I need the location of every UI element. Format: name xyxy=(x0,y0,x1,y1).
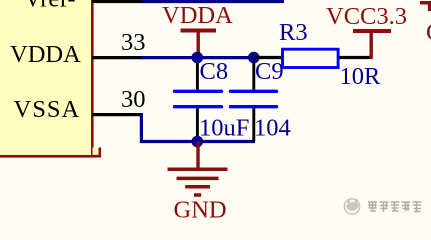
wire VSSA net (step down to ground rail) xyxy=(141,115,256,142)
value 10R xyxy=(340,63,382,90)
wire Vref- net (top) xyxy=(143,0,285,3)
capacitor C9 leads xyxy=(252,58,255,142)
capacitor C8 plates xyxy=(175,91,222,106)
junction dot VDDA/C8 xyxy=(192,52,204,64)
ground symbol GND stem xyxy=(196,142,199,169)
value 10uF xyxy=(199,115,249,142)
value 104 xyxy=(254,115,291,142)
pin name VDDA xyxy=(10,41,81,68)
svg-text:30: 30 xyxy=(121,86,146,113)
resistor R3 body xyxy=(283,49,339,67)
IC body U? (yellow part box) xyxy=(0,0,101,156)
svg-text:104: 104 xyxy=(254,115,291,142)
pin name Vref- xyxy=(24,0,76,13)
designator C9 xyxy=(255,58,284,85)
capacitor C9 plates xyxy=(231,91,277,106)
svg-text:10R: 10R xyxy=(340,63,382,90)
pin number 30 xyxy=(121,86,146,113)
svg-text:C8: C8 xyxy=(200,58,229,85)
svg-text:C: C xyxy=(426,19,431,46)
svg-text:VCC3.3: VCC3.3 xyxy=(326,3,407,30)
power symbol VDDA (bar and stem) xyxy=(181,31,217,58)
svg-text:VSSA: VSSA xyxy=(14,96,81,123)
pin Vref- lead xyxy=(92,0,144,3)
designator R3 xyxy=(279,19,308,46)
partial letter C at right edge xyxy=(426,19,431,46)
net label VCC3.3 xyxy=(326,3,407,30)
svg-text:10uF: 10uF xyxy=(199,115,249,142)
partial power bar at right edge xyxy=(420,3,431,11)
wire VDDA net horizontal xyxy=(141,56,255,59)
pin name VSSA xyxy=(14,96,81,123)
resistor R3 left pin xyxy=(254,56,282,59)
pin number 33 xyxy=(121,29,146,56)
pin VSSA lead (pin 30) xyxy=(92,113,142,116)
svg-text:33: 33 xyxy=(121,29,146,56)
junction dot ground rail/C8 xyxy=(192,136,204,148)
watermark text 硬件笔记本 (faked glyph blocks) xyxy=(368,202,422,212)
power symbol VCC3.3 (bar and stem) xyxy=(353,31,391,59)
svg-text:Vref-: Vref- xyxy=(24,0,76,13)
capacitor C8 leads xyxy=(196,58,199,142)
svg-text:GND: GND xyxy=(174,197,227,224)
svg-text:VDDA: VDDA xyxy=(162,2,233,29)
svg-text:VDDA: VDDA xyxy=(10,41,81,68)
watermark logo circle xyxy=(344,199,359,214)
svg-text:R3: R3 xyxy=(279,19,308,46)
resistor R3 right pin xyxy=(339,56,372,59)
net label VDDA xyxy=(162,2,233,29)
ground symbol GND bars xyxy=(168,169,228,195)
net label GND xyxy=(174,197,227,224)
junction dot VDDA/C9 xyxy=(248,52,260,64)
designator C8 xyxy=(200,58,229,85)
pin VDDA lead (pin 33) xyxy=(92,56,143,59)
svg-text:C9: C9 xyxy=(255,58,284,85)
